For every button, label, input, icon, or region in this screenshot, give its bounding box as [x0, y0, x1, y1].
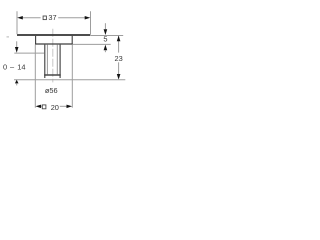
- dim 20 ext line right: [71, 45, 73, 108]
- dim 20 line: [40, 105, 42, 107]
- stem outer left wall: [44, 45, 46, 78]
- dim 5 top ref line: [91, 35, 123, 37]
- svg-text:37: 37: [48, 13, 56, 22]
- stem bottom: [44, 74, 61, 75]
- dim 23 arrow down: [117, 74, 121, 80]
- svg-text:ø56: ø56: [45, 86, 58, 95]
- block left edge: [35, 36, 37, 45]
- dim 0-14 arrow up: [15, 80, 19, 84]
- block right edge: [71, 36, 73, 45]
- stray tick left: [7, 36, 10, 38]
- dim 37 ext line left: [16, 11, 18, 34]
- dim 5 bottom ref line: [73, 43, 111, 45]
- bottom ref line: [14, 79, 125, 81]
- dim 37 arrow left: [17, 16, 23, 20]
- dim 23 arrow up: [117, 36, 121, 42]
- dim 5 arrow up: [104, 45, 108, 51]
- svg-text:20: 20: [51, 103, 59, 112]
- dim 5 arrow down: [104, 23, 106, 29]
- dim 20 arrow left: [36, 105, 42, 109]
- svg-text:5: 5: [103, 35, 107, 44]
- dim 23 line: [118, 36, 120, 53]
- block bottom: [35, 43, 73, 45]
- dim 0-14 arrow down: [16, 41, 18, 47]
- dim 0-14 top ref line: [14, 52, 44, 54]
- stem inner left wall: [46, 45, 48, 75]
- centerline: [52, 29, 54, 83]
- stem outer right wall: [59, 45, 61, 78]
- dim 20 ext line left: [34, 45, 36, 108]
- dim 37 ext line right: [90, 11, 92, 34]
- dim 37 arrow right: [85, 16, 91, 20]
- svg-text:23: 23: [114, 54, 122, 63]
- dim 37 line: [22, 17, 40, 19]
- dim 20 arrow right: [67, 105, 73, 109]
- dim 20 square symbol: [42, 105, 46, 109]
- stem inner right wall: [56, 45, 58, 75]
- plate top: [17, 34, 90, 36]
- dim 37 square symbol: [43, 16, 46, 20]
